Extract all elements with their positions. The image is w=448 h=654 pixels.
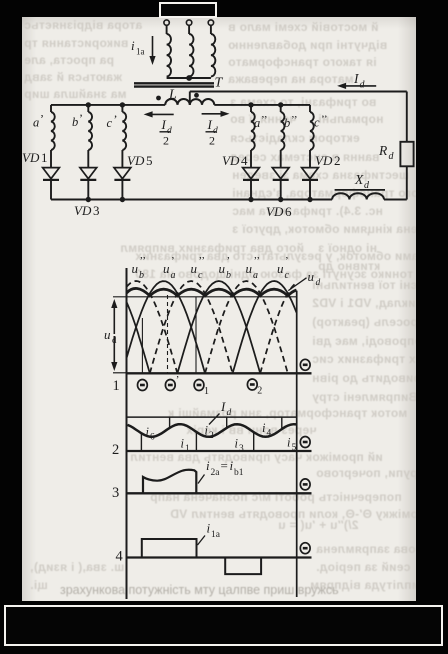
white-framed caption box top (159, 2, 217, 18)
svg-text:d: d (227, 408, 232, 418)
svg-text:L: L (168, 88, 177, 103)
plot3 axis (127, 492, 312, 494)
svg-text:VD: VD (266, 204, 284, 219)
svg-text:4: 4 (267, 429, 272, 439)
svg-text:’’: ’’ (321, 114, 328, 126)
svg-text:u: u (246, 261, 253, 276)
plot1 axis (127, 372, 312, 374)
svg-text:i: i (262, 421, 266, 435)
svg-text:d: d (112, 335, 117, 345)
primary star point wire (167, 77, 211, 79)
svg-text:’: ’ (79, 111, 83, 125)
diode VD3 (80, 168, 97, 179)
secondary winding c' (121, 105, 123, 112)
svg-text:i: i (230, 458, 234, 473)
svg-text:6: 6 (285, 204, 292, 219)
theta marks (138, 380, 148, 391)
svg-text:3: 3 (93, 203, 100, 218)
guide verticals (141, 318, 143, 373)
svg-text:u: u (132, 261, 139, 276)
arrow Id/2 left (151, 113, 174, 115)
svg-text:a: a (33, 116, 39, 130)
interphase transformer L (165, 99, 214, 105)
svg-text:=: = (221, 458, 228, 473)
junction dots bottom bus (86, 197, 91, 202)
plot2 top line (128, 416, 297, 418)
svg-text:4: 4 (116, 549, 124, 565)
secondary winding b'' (280, 105, 282, 112)
svg-text:1: 1 (113, 378, 120, 394)
svg-text:i: i (287, 436, 291, 450)
svg-text:2a: 2a (211, 468, 221, 478)
svg-text:6: 6 (150, 433, 155, 443)
svg-text:’: ’ (285, 255, 289, 267)
black scan border right (416, 0, 448, 601)
svg-text:3: 3 (112, 485, 119, 501)
diode VD4 (243, 168, 260, 179)
svg-text:5: 5 (292, 443, 297, 453)
negative pulse (225, 558, 261, 574)
svg-text:b: b (226, 270, 231, 281)
svg-text:VD: VD (127, 153, 145, 168)
svg-text:c: c (198, 270, 203, 281)
load resistor Rd (400, 142, 413, 167)
svg-text:i: i (205, 424, 209, 438)
svg-text:’: ’ (114, 112, 118, 126)
polarity dot right (194, 93, 199, 98)
black scan border bottom (0, 601, 448, 654)
svg-text:’: ’ (176, 374, 180, 386)
svg-text:u: u (191, 261, 198, 276)
junction dots top bus right (248, 102, 253, 107)
svg-text:I: I (220, 399, 226, 414)
phase voltage arches (127, 302, 150, 373)
svg-text:’: ’ (171, 255, 175, 267)
svg-text:VD: VD (315, 153, 333, 168)
svg-text:i: i (207, 521, 211, 536)
arrow Id top right (344, 85, 376, 87)
svg-text:’’: ’’ (140, 255, 147, 267)
arrow Id/2 right (202, 113, 223, 115)
wire down to load (406, 92, 408, 142)
Id ripple curve (128, 424, 297, 437)
svg-text:b: b (139, 270, 144, 281)
svg-text:2: 2 (209, 134, 215, 148)
svg-text:1: 1 (185, 444, 190, 454)
svg-text:2: 2 (334, 153, 341, 168)
svg-text:’’: ’’ (254, 255, 261, 267)
svg-text:’’: ’’ (261, 114, 268, 126)
svg-text:a: a (254, 116, 260, 130)
transformer T primary windings (164, 20, 169, 25)
svg-text:a: a (171, 270, 176, 281)
svg-text:d: d (389, 151, 395, 162)
svg-text:VD: VD (222, 153, 240, 168)
junction dots top bus left (86, 102, 91, 107)
svg-text:2: 2 (112, 442, 119, 458)
svg-text:1: 1 (41, 150, 48, 165)
svg-text:3: 3 (239, 444, 244, 454)
svg-text:c: c (314, 116, 320, 130)
svg-text:2: 2 (163, 134, 169, 148)
white-framed caption box bottom (4, 605, 443, 646)
svg-text:i: i (235, 437, 239, 451)
diode VD2 (302, 168, 319, 179)
cathode bus (bottom) (51, 199, 332, 201)
svg-text:u: u (163, 261, 170, 276)
svg-text:4: 4 (241, 153, 248, 168)
svg-text:R: R (378, 143, 388, 158)
svg-text:2: 2 (209, 431, 214, 441)
smoothing reactor Xd (332, 193, 384, 199)
svg-text:i: i (206, 458, 210, 473)
svg-text:’: ’ (40, 112, 44, 126)
svg-text:T: T (215, 76, 224, 91)
svg-text:u: u (219, 261, 226, 276)
plot2 axis (127, 450, 312, 452)
svg-text:d: d (360, 80, 366, 91)
svg-text:i: i (131, 38, 135, 53)
cell dividers (140, 433, 142, 451)
black scan border top (0, 0, 448, 17)
ud envelope (127, 288, 297, 295)
svg-text:a: a (253, 270, 258, 281)
svg-text:b1: b1 (234, 468, 244, 478)
secondary winding a' (50, 105, 52, 112)
svg-text:u: u (104, 327, 111, 342)
ud dimension arrow (113, 372, 127, 374)
midpoint tap wire (189, 92, 191, 105)
svg-text:5: 5 (146, 153, 153, 168)
black scan border left (0, 0, 22, 601)
svg-text:b: b (284, 116, 290, 130)
secondary winding b' (87, 105, 89, 112)
svg-text:i: i (146, 425, 150, 439)
i1a positive pulse (142, 539, 197, 557)
polarity dot left (156, 96, 161, 101)
core of transformer T (134, 82, 214, 84)
plot left boundary (126, 268, 128, 599)
svg-text:X: X (354, 172, 364, 187)
svg-text:I: I (207, 117, 213, 132)
svg-text:VD: VD (22, 150, 40, 165)
secondary star bus (top) (51, 104, 165, 106)
svg-text:VD: VD (74, 203, 92, 218)
svg-text:i: i (181, 437, 185, 451)
secondary winding a'' (250, 105, 252, 112)
svg-text:1a: 1a (136, 47, 145, 57)
svg-text:’’: ’’ (199, 255, 206, 267)
diode VD1 (43, 168, 60, 179)
svg-text:’’: ’’ (291, 114, 298, 126)
secondary winding c'' (309, 105, 311, 112)
ud mean level line (113, 296, 297, 298)
svg-text:b: b (72, 115, 78, 129)
svg-text:u: u (308, 269, 315, 284)
svg-text:’: ’ (227, 255, 231, 267)
svg-text:d: d (316, 278, 321, 288)
svg-text:I: I (161, 117, 167, 132)
svg-text:2: 2 (257, 386, 262, 397)
plot4 axis (127, 556, 312, 558)
svg-text:1a: 1a (211, 530, 221, 540)
svg-text:c: c (285, 270, 290, 281)
grid vertical right (296, 291, 298, 597)
svg-text:c: c (107, 116, 113, 130)
svg-text:u: u (277, 261, 284, 276)
svg-text:1: 1 (204, 386, 209, 397)
diode VD5 (114, 168, 131, 179)
diode VD6 (272, 168, 289, 179)
i2a pulse (143, 470, 196, 493)
